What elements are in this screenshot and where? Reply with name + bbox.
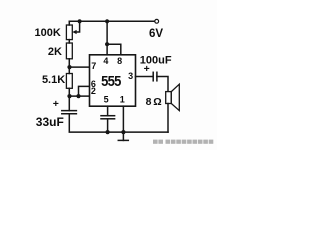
svg-text:2: 2 bbox=[91, 86, 96, 96]
wire pin5 to C2 bbox=[107, 106, 109, 116]
wire pins 4 8 feed bbox=[106, 21, 108, 55]
svg-text:555: 555 bbox=[101, 72, 122, 89]
wire node2 to C1 bbox=[68, 96, 70, 111]
resistor R3 5.1K body bbox=[66, 74, 72, 89]
capacitor C1 33uF plates bbox=[62, 110, 77, 112]
node junction trig dot bbox=[67, 94, 71, 98]
wire 2K to node7 bbox=[68, 59, 70, 67]
node rail dot C2 bbox=[106, 130, 110, 134]
op IC U1 555 box bbox=[90, 55, 136, 106]
ground bbox=[122, 132, 124, 140]
watermark bbox=[153, 140, 213, 144]
wire pin2 bbox=[70, 95, 90, 97]
potentiometer R1 100K body bbox=[66, 25, 72, 40]
wire top power rail bbox=[69, 20, 155, 22]
svg-text:8: 8 bbox=[146, 96, 152, 108]
svg-text:5.1K: 5.1K bbox=[42, 74, 65, 86]
svg-text:100K: 100K bbox=[35, 27, 61, 39]
node dot pin4 branch bbox=[105, 42, 109, 46]
svg-text:1: 1 bbox=[120, 95, 125, 105]
svg-text:+: + bbox=[144, 63, 150, 75]
svg-text:3: 3 bbox=[128, 71, 133, 81]
wire pin6 riser bbox=[79, 86, 90, 96]
wire pin3 output bbox=[136, 76, 154, 78]
wire pin7 bbox=[70, 66, 90, 68]
wire 5.1K to node2 bbox=[68, 88, 70, 96]
node junction R2/R3 dot bbox=[67, 65, 71, 69]
wire C1 to bottom rail bbox=[69, 114, 168, 132]
capacitor C2 bypass plates bbox=[101, 115, 115, 117]
capacitor C3 100uF plates bbox=[152, 72, 154, 81]
wire speaker to rail bbox=[167, 104, 169, 133]
svg-text:+: + bbox=[53, 98, 59, 110]
svg-text:8: 8 bbox=[117, 56, 122, 66]
svg-text:7: 7 bbox=[91, 61, 96, 71]
terminal 6V bbox=[155, 19, 159, 23]
wire C3 to speaker bbox=[157, 77, 168, 92]
wire pin1 to rail bbox=[122, 106, 124, 132]
wire pot top lead bbox=[68, 21, 70, 25]
node junction trig dot2 bbox=[76, 94, 80, 98]
wire C2 to rail bbox=[107, 119, 109, 132]
resistor R2 2K body bbox=[66, 43, 72, 59]
speaker LS1 body bbox=[166, 92, 172, 104]
svg-text:2K: 2K bbox=[48, 46, 62, 58]
svg-text:4: 4 bbox=[103, 56, 108, 66]
node rail dot pins48 bbox=[105, 19, 109, 23]
svg-text:5: 5 bbox=[104, 95, 109, 105]
wire pot to 2K bbox=[68, 40, 70, 43]
potentiometer wiper arrowhead bbox=[72, 30, 76, 34]
node wiper junction dot bbox=[78, 19, 82, 23]
node rail dot gnd bbox=[121, 130, 125, 134]
wire pot wiper drop bbox=[75, 21, 79, 32]
wire node7 to 5.1K bbox=[68, 67, 70, 73]
svg-text:33uF: 33uF bbox=[36, 115, 64, 129]
svg-text:6V: 6V bbox=[149, 28, 163, 40]
svg-text:Ω: Ω bbox=[153, 96, 161, 108]
